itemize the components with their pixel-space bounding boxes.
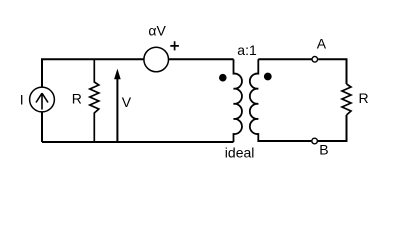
- terminal A: [312, 57, 318, 63]
- polarity dot secondary: [264, 73, 272, 81]
- wire top-mid (aV source to transformer primary top): [168, 58, 233, 60]
- dependent source aV: [144, 47, 169, 72]
- wire top-left (top rail from left corner to aV source): [42, 59, 144, 142]
- svg-text:A: A: [317, 35, 327, 51]
- plus sign: [170, 41, 179, 50]
- svg-text:I: I: [20, 92, 24, 108]
- wire terminal B to secondary bottom: [258, 140, 311, 142]
- svg-text:αV: αV: [148, 23, 166, 39]
- svg-text:R: R: [72, 91, 82, 107]
- svg-text:V: V: [122, 94, 132, 110]
- resistor R2 (right): [342, 84, 351, 115]
- svg-text:R: R: [359, 90, 369, 106]
- svg-text:ideal: ideal: [225, 144, 255, 160]
- wire secondary top to terminal A: [258, 58, 311, 60]
- polarity dot primary: [219, 74, 227, 82]
- resistor R1 (left): [90, 59, 99, 142]
- transformer primary winding: [234, 59, 242, 142]
- wire terminal A to right resistor: [318, 59, 346, 84]
- wire right resistor to terminal B: [318, 115, 347, 141]
- voltage arrow V: [114, 69, 121, 143]
- current source I: [30, 87, 55, 112]
- svg-text:B: B: [319, 141, 328, 157]
- transformer secondary winding: [250, 59, 258, 142]
- svg-text:a:1: a:1: [237, 42, 257, 58]
- terminal B: [312, 138, 318, 144]
- wire bottom-left rail: [42, 141, 234, 143]
